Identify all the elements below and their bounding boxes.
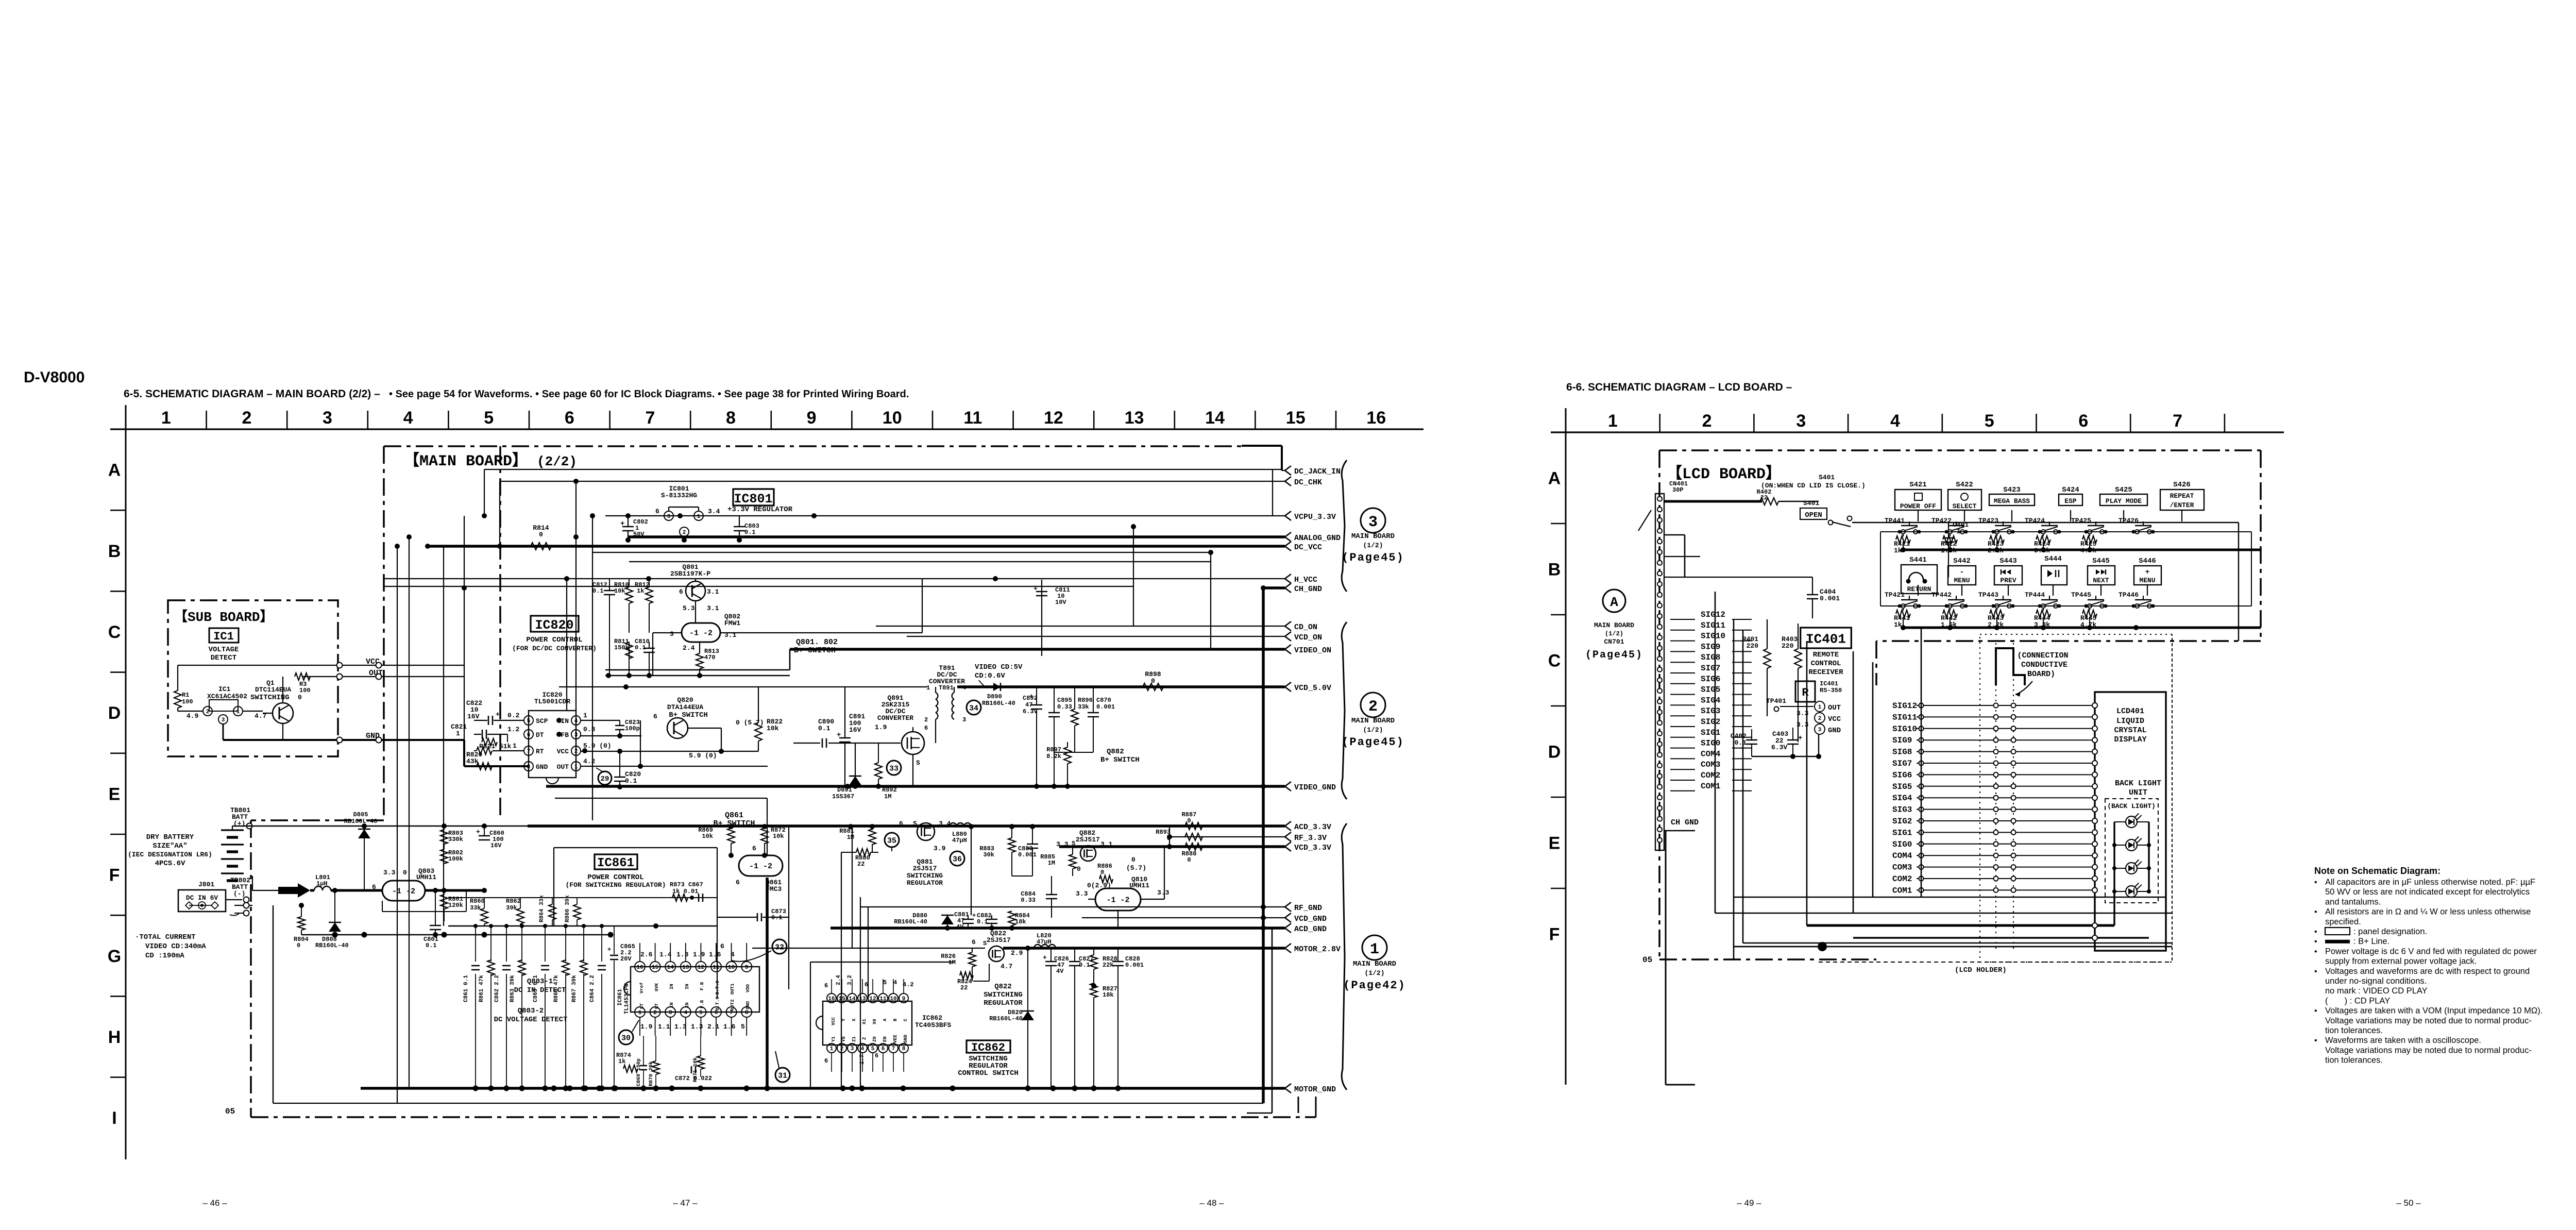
- svg-text:13: 13: [859, 996, 866, 1002]
- wire: [384, 578, 1285, 579]
- svg-text:0: 0: [297, 942, 300, 949]
- svg-text:+: +: [837, 731, 841, 739]
- svg-text:B+ SWITCH: B+ SWITCH: [1100, 756, 1140, 764]
- power control IC861 label box: [595, 854, 637, 869]
- svg-text:R862: R862: [506, 898, 521, 905]
- node ACD_3.3V: [1285, 821, 1291, 831]
- svg-text:Q822: Q822: [994, 983, 1012, 991]
- svg-text:CN701: CN701: [1604, 638, 1624, 646]
- svg-text:DTC114EUA: DTC114EUA: [255, 686, 291, 694]
- svg-text:(1/2): (1/2): [1364, 969, 1384, 977]
- svg-text:no mark : VIDEO CD PLAY: no mark : VIDEO CD PLAY: [2325, 986, 2428, 996]
- wire: [528, 824, 1285, 828]
- svg-text:6: 6: [372, 883, 376, 891]
- svg-text:7: 7: [892, 1046, 895, 1052]
- wire: [575, 481, 577, 711]
- svg-text:20V: 20V: [620, 955, 632, 963]
- svg-text:VIDEO_GND: VIDEO_GND: [1294, 783, 1336, 792]
- svg-text:S425: S425: [2115, 486, 2132, 494]
- svg-text:SIG1: SIG1: [1892, 828, 1912, 837]
- right page row border and letters: [1565, 432, 1567, 1085]
- svg-text:– 48 –: – 48 –: [1199, 1198, 1224, 1208]
- wire: [546, 785, 1285, 788]
- svg-text:(FOR SWITCHING REGULATOR): (FOR SWITCHING REGULATOR): [565, 881, 666, 889]
- svg-text:0: 0: [298, 694, 302, 701]
- svg-text:Q803-1: Q803-1: [527, 978, 553, 986]
- svg-text:DC VOLTAGE DETECT: DC VOLTAGE DETECT: [494, 1016, 568, 1024]
- svg-text:RB160L-40: RB160L-40: [344, 818, 378, 825]
- svg-text:MAIN BOARD: MAIN BOARD: [1351, 717, 1395, 725]
- svg-text:TP441: TP441: [1885, 517, 1905, 525]
- svg-text:220: 220: [1747, 642, 1759, 650]
- svg-text:COM3: COM3: [1892, 863, 1912, 872]
- wire: [443, 546, 444, 926]
- svg-text:•: •: [2314, 1007, 2317, 1016]
- svg-text:supply from external power vol: supply from external power voltage jack.: [2325, 957, 2477, 966]
- svg-text:Voltages are taken with a VOM: Voltages are taken with a VOM (Input imp…: [2325, 1006, 2543, 1016]
- svg-text:+: +: [476, 828, 480, 836]
- svg-text:SIG3: SIG3: [1701, 706, 1720, 716]
- circled A main board ref: [1603, 589, 1625, 612]
- svg-text:R866 39k: R866 39k: [565, 895, 571, 922]
- svg-text:10k: 10k: [767, 724, 779, 732]
- svg-text:2: 2: [1702, 411, 1712, 431]
- wire: [409, 537, 410, 1089]
- node H_VCC: [1285, 574, 1291, 583]
- svg-text:05: 05: [1642, 955, 1652, 965]
- wire cn401 row feeds: [1664, 577, 1812, 578]
- svg-text:OUT1: OUT1: [730, 983, 735, 995]
- svg-text:IC820: IC820: [535, 618, 573, 633]
- svg-text:12: 12: [869, 996, 876, 1002]
- svg-text:LIQUID: LIQUID: [2116, 717, 2144, 726]
- svg-text:10: 10: [890, 996, 896, 1002]
- svg-text:0.1: 0.1: [625, 777, 637, 785]
- svg-text:Note on Schematic Diagram:: Note on Schematic Diagram:: [2314, 866, 2441, 876]
- svg-text:OUT: OUT: [557, 763, 569, 771]
- svg-text:0.001: 0.001: [1125, 962, 1144, 969]
- svg-text:2: 2: [574, 749, 578, 755]
- board area dash separator: [499, 446, 501, 820]
- svg-text:D-V8000: D-V8000: [24, 369, 84, 386]
- svg-text:VCD_3.3V: VCD_3.3V: [1294, 844, 1331, 852]
- svg-text:MOTOR_GND: MOTOR_GND: [1294, 1085, 1336, 1094]
- svg-text:(-): (-): [233, 890, 245, 898]
- svg-text:1.4: 1.4: [659, 951, 672, 958]
- svg-text:GND: GND: [745, 1001, 751, 1009]
- svg-text:(IEC DESIGNATION LR6): (IEC DESIGNATION LR6): [128, 851, 212, 858]
- svg-text:DTA144EUA: DTA144EUA: [667, 703, 703, 711]
- svg-text:POWER CONTROL: POWER CONTROL: [526, 636, 582, 644]
- svg-text:DC IN 6V: DC IN 6V: [186, 894, 218, 902]
- svg-text:4: 4: [1890, 411, 1900, 431]
- svg-text:3.3: 3.3: [1076, 890, 1088, 898]
- wire: [1170, 836, 1285, 837]
- mosfet q891 wires: [912, 727, 913, 732]
- page reference 3 bracket: [1342, 460, 1347, 592]
- node VCD_5.0V: [1285, 682, 1291, 692]
- svg-text:COM1: COM1: [1892, 886, 1912, 895]
- wire rows left feed: [1880, 532, 1881, 606]
- svg-text:SIG1: SIG1: [1701, 728, 1720, 737]
- svg-text:TP426: TP426: [2119, 517, 2139, 525]
- svg-text:2: 2: [1818, 716, 1822, 722]
- svg-text:IC1: IC1: [218, 685, 231, 693]
- svg-text:S401: S401: [1803, 499, 1819, 507]
- svg-text:DISPLAY: DISPLAY: [2114, 735, 2146, 744]
- svg-text:6: 6: [752, 845, 756, 852]
- svg-text:13: 13: [682, 965, 689, 971]
- svg-text:3: 3: [667, 514, 671, 520]
- svg-text:F: F: [1549, 925, 1560, 945]
- svg-text:5: 5: [484, 408, 494, 428]
- svg-text:4.7: 4.7: [1001, 963, 1012, 970]
- wire out line: [581, 766, 768, 767]
- svg-text:3: 3: [1368, 514, 1378, 531]
- svg-text:VCD_ON: VCD_ON: [1294, 633, 1322, 642]
- capacitor C803: [734, 526, 745, 528]
- svg-text:(1/2): (1/2): [1605, 630, 1623, 637]
- svg-text:0: 0: [1187, 817, 1191, 824]
- svg-text:DC_CHK: DC_CHK: [1294, 478, 1322, 487]
- ir receiver pins: [1815, 701, 1825, 712]
- svg-text:7: 7: [2173, 411, 2182, 431]
- svg-text:18k: 18k: [1103, 991, 1114, 999]
- wire q861 feed rail: [555, 798, 767, 799]
- svg-text:S422: S422: [1956, 481, 1973, 489]
- svg-text:330k: 330k: [448, 836, 463, 843]
- svg-text:SIG11: SIG11: [1892, 713, 1917, 722]
- svg-text:6: 6: [924, 724, 928, 732]
- wire battery plus rail: [232, 825, 576, 827]
- svg-text:Voltage variations may be note: Voltage variations may be noted due to n…: [2325, 1046, 2532, 1055]
- display LCD401 box: [2095, 692, 2166, 951]
- svg-text:(Page45): (Page45): [1342, 551, 1404, 564]
- svg-text:1: 1: [697, 514, 701, 520]
- svg-text:S401: S401: [1819, 474, 1835, 481]
- svg-text:VCC: VCC: [557, 748, 569, 755]
- page reference circled 1: [1362, 935, 1387, 960]
- svg-text:B: B: [1548, 560, 1561, 580]
- svg-text:SIG10: SIG10: [1892, 724, 1917, 734]
- svg-text:2: 2: [242, 408, 251, 428]
- svg-text:1.9: 1.9: [875, 723, 887, 731]
- svg-text:2.4: 2.4: [836, 975, 842, 985]
- svg-text:: panel designation.: : panel designation.: [2353, 927, 2427, 936]
- svg-text:X: X: [852, 1018, 857, 1021]
- svg-text:33k: 33k: [1078, 703, 1089, 711]
- wire ic861 bottom rail dots: [551, 1086, 557, 1091]
- svg-text:+: +: [620, 520, 624, 528]
- svg-text:IN: IN: [685, 1002, 690, 1008]
- q803 loop box: [382, 908, 466, 921]
- svg-text:S: S: [916, 759, 920, 767]
- wire top cn401 feed: [1664, 500, 1762, 503]
- svg-text:CONVERTER: CONVERTER: [877, 714, 913, 722]
- svg-text:+: +: [972, 912, 976, 919]
- svg-text:CONDUCTIVE: CONDUCTIVE: [2021, 661, 2067, 669]
- svg-text:MOTOR_2.8V: MOTOR_2.8V: [1294, 945, 1341, 954]
- svg-text:VCD_5.0V: VCD_5.0V: [1294, 684, 1331, 693]
- svg-text:R873 C867: R873 C867: [670, 881, 703, 888]
- svg-text:4: 4: [861, 1046, 865, 1052]
- svg-text:CONTROL: CONTROL: [1811, 660, 1841, 668]
- svg-text:+3.3V REGULATOR: +3.3V REGULATOR: [727, 506, 793, 514]
- node CD_ON: [1285, 621, 1291, 631]
- svg-text:10k: 10k: [773, 833, 784, 840]
- svg-text:TL1453CPW: TL1453CPW: [624, 983, 630, 1014]
- svg-text:6: 6: [972, 938, 976, 946]
- wire: [1263, 586, 1285, 589]
- svg-text:C895: C895: [1057, 697, 1072, 704]
- node VIDEO_ON: [1285, 645, 1291, 654]
- svg-text:0.1: 0.1: [592, 587, 604, 595]
- svg-text:D: D: [108, 703, 121, 723]
- ic862 boxed label: [967, 1040, 1010, 1053]
- svg-text:11: 11: [963, 408, 982, 428]
- svg-text:E: E: [109, 784, 121, 804]
- wire jack down: [273, 905, 274, 1103]
- wire: [273, 1103, 1263, 1104]
- svg-text:16: 16: [1366, 408, 1386, 428]
- svg-text:SIG10: SIG10: [1701, 632, 1725, 641]
- node ACD_GND: [1285, 923, 1291, 933]
- svg-text:2SJ517: 2SJ517: [1076, 836, 1100, 844]
- svg-text:5: 5: [527, 718, 531, 724]
- svg-text:MENU: MENU: [2139, 577, 2155, 584]
- svg-text:1: 1: [638, 1010, 642, 1016]
- svg-text:C: C: [903, 1018, 908, 1021]
- wire: [860, 906, 1285, 907]
- svg-text:UMH11: UMH11: [416, 873, 436, 881]
- svg-text:SIG7: SIG7: [1892, 759, 1912, 768]
- svg-text:(1/2): (1/2): [1363, 726, 1383, 734]
- svg-text:2.9: 2.9: [1011, 949, 1023, 957]
- svg-text:6: 6: [865, 981, 868, 988]
- svg-text:specified.: specified.: [2325, 917, 2361, 926]
- svg-text:•: •: [2314, 908, 2317, 917]
- svg-text:S: S: [913, 820, 917, 828]
- wire ic862 bottom dots: [840, 1086, 846, 1091]
- jack connection: [226, 899, 242, 900]
- svg-text:【MAIN BOARD】: 【MAIN BOARD】: [404, 452, 528, 470]
- svg-text:220: 220: [1782, 642, 1794, 650]
- svg-text:A: A: [1548, 469, 1561, 488]
- svg-text:2.1: 2.1: [707, 1023, 720, 1031]
- svg-text:EN: EN: [883, 1036, 888, 1042]
- svg-text:Q803-2: Q803-2: [518, 1007, 544, 1015]
- svg-text:1M: 1M: [847, 834, 854, 841]
- svg-text:•: •: [2314, 967, 2317, 976]
- svg-text:RF_3.3V: RF_3.3V: [1294, 834, 1327, 843]
- wire: [629, 561, 1211, 562]
- svg-text:14: 14: [1205, 408, 1225, 428]
- right page column ruler: [1551, 431, 2284, 433]
- wire: [752, 948, 985, 949]
- svg-text:Q801. 802: Q801. 802: [796, 638, 838, 647]
- wire backlight feeds: [1807, 924, 2114, 927]
- svg-text:TP446: TP446: [2119, 591, 2139, 599]
- node VCPU_3.3V: [1285, 511, 1291, 520]
- svg-text:H_VCC: H_VCC: [1294, 576, 1317, 584]
- svg-text:SIG6: SIG6: [1701, 675, 1720, 684]
- svg-text:CT: CT: [639, 1003, 645, 1009]
- svg-text:(BACK LIGHT): (BACK LIGHT): [2107, 802, 2156, 810]
- svg-text:VCC: VCC: [1828, 715, 1841, 723]
- svg-text:50V: 50V: [633, 531, 645, 538]
- svg-text:E: E: [1549, 834, 1561, 853]
- svg-text:SWITCHING: SWITCHING: [907, 872, 943, 880]
- wire vcc line: [581, 751, 758, 752]
- svg-text:ESP: ESP: [2064, 497, 2077, 505]
- diode D890: [993, 683, 1001, 691]
- svg-text:29: 29: [601, 775, 609, 783]
- svg-text:D890: D890: [987, 693, 1002, 700]
- svg-text:VIDEO CD:340mA: VIDEO CD:340mA: [145, 942, 206, 951]
- svg-text:15: 15: [652, 965, 659, 971]
- svg-text:TP423: TP423: [1978, 517, 1998, 525]
- wire junctions: [406, 534, 412, 540]
- svg-text:3: 3: [1796, 411, 1806, 431]
- svg-text:0.1: 0.1: [426, 942, 437, 949]
- power control IC820 label box: [531, 616, 579, 632]
- svg-text:S423: S423: [2003, 486, 2021, 494]
- svg-text:R897: R897: [1046, 746, 1061, 753]
- svg-text:3: 3: [851, 1046, 854, 1052]
- svg-text:8.2k: 8.2k: [1046, 753, 1061, 760]
- wire q801 connections: [695, 579, 696, 581]
- svg-text:·TOTAL CURRENT: ·TOTAL CURRENT: [135, 933, 196, 941]
- wire: [605, 669, 790, 671]
- svg-text:(Page45): (Page45): [1342, 736, 1404, 749]
- wire connector slash: [1638, 510, 1651, 531]
- svg-text:3: 3: [669, 1010, 672, 1016]
- main board dash-dot outline: [384, 445, 1242, 447]
- svg-text:S: S: [1072, 840, 1075, 847]
- circled 30: [619, 1030, 633, 1044]
- svg-text:1M: 1M: [884, 793, 891, 800]
- svg-text:VCC: VCC: [831, 1017, 836, 1025]
- svg-text:5.3: 5.3: [683, 604, 695, 612]
- page reference circled 2: [1361, 693, 1385, 717]
- svg-text:4: 4: [731, 951, 735, 958]
- voltage detect IC1 label box: [209, 628, 239, 643]
- wire cn401 bottom tail: [1665, 831, 1667, 1085]
- svg-text:SIG0: SIG0: [1701, 739, 1720, 748]
- wire switch row1 chain: [1880, 531, 2251, 532]
- sub board dashed outline: [168, 600, 338, 756]
- wire: [592, 552, 1211, 553]
- svg-text:DT: DT: [536, 731, 544, 739]
- svg-text:RECEIVER: RECEIVER: [1808, 668, 1843, 677]
- svg-text:S424: S424: [2062, 486, 2079, 494]
- svg-text:DRY BATTERY: DRY BATTERY: [146, 833, 194, 841]
- svg-text:3: 3: [323, 408, 332, 428]
- svg-text:– 47 –: – 47 –: [673, 1198, 698, 1208]
- svg-text:(LCD HOLDER): (LCD HOLDER): [1955, 966, 2007, 974]
- svg-text:DETECT: DETECT: [211, 654, 236, 662]
- svg-text:36: 36: [953, 855, 962, 864]
- feed arrow: [278, 883, 310, 898]
- wire: [868, 907, 869, 998]
- svg-text:OUT: OUT: [1828, 704, 1841, 712]
- svg-text:R864 33k: R864 33k: [539, 895, 545, 922]
- svg-text:15: 15: [1286, 408, 1306, 428]
- wire fan1 verticals: [1733, 619, 1735, 959]
- page reference 2 bracket: [1342, 622, 1347, 799]
- wire: [1210, 552, 1211, 649]
- svg-text:2: 2: [653, 1010, 657, 1016]
- svg-text:-1 -2: -1 -2: [1106, 896, 1129, 905]
- svg-text:ACD_GND: ACD_GND: [1294, 925, 1327, 934]
- svg-text:-1 -2: -1 -2: [392, 887, 415, 896]
- svg-text:(ON:WHEN CD LID IS CLOSE.): (ON:WHEN CD LID IS CLOSE.): [1761, 482, 1866, 490]
- svg-text:6: 6: [679, 588, 683, 596]
- svg-text:A: A: [108, 461, 121, 480]
- svg-text:SIG5: SIG5: [1701, 685, 1720, 695]
- svg-text:100p: 100p: [625, 725, 640, 732]
- svg-text:R867 39k: R867 39k: [571, 975, 578, 1002]
- svg-text:5: 5: [741, 1023, 745, 1031]
- svg-text:POWER OFF: POWER OFF: [1900, 502, 1936, 510]
- svg-text:50 WV or less are not indicate: 50 WV or less are not indicated except f…: [2325, 887, 2530, 897]
- svg-text:D: D: [1548, 743, 1561, 762]
- wire: [428, 545, 1285, 548]
- svg-text:0.001: 0.001: [1096, 703, 1115, 711]
- svg-text:0: 0: [1131, 856, 1136, 864]
- svg-text:3.3: 3.3: [1797, 721, 1809, 729]
- svg-text:SIG5: SIG5: [1892, 782, 1912, 791]
- svg-text:2.6: 2.6: [640, 951, 653, 958]
- wire: [1003, 947, 1285, 950]
- svg-text:LCD401: LCD401: [2116, 707, 2144, 716]
- svg-text:2: 2: [840, 1046, 844, 1052]
- wire rf gnd row: [941, 915, 954, 916]
- svg-text:COM4: COM4: [1701, 749, 1721, 759]
- svg-text:1.9: 1.9: [693, 951, 705, 958]
- node DC_VCC: [1285, 542, 1291, 551]
- svg-text:SWITCHING: SWITCHING: [250, 694, 290, 702]
- svg-text:C862 2.2: C862 2.2: [494, 975, 500, 1002]
- backlight leds: [2113, 822, 2115, 891]
- svg-text:30k: 30k: [983, 851, 994, 858]
- svg-text:1.3: 1.3: [691, 1023, 703, 1031]
- svg-text:VOLTAGE: VOLTAGE: [209, 646, 239, 654]
- svg-text:SCP: SCP: [536, 717, 548, 725]
- wire rail joins: [1169, 826, 1170, 847]
- svg-text:S-81332HG: S-81332HG: [661, 492, 697, 499]
- left page row border and letters: [125, 429, 127, 1159]
- controller IC861 TL1453CPW body: [631, 967, 759, 1012]
- node DC_CHK: [1285, 477, 1291, 486]
- page reference 1 bracket: [1342, 823, 1347, 1090]
- wire: [559, 686, 927, 687]
- svg-text:+: +: [607, 946, 611, 953]
- svg-text:under no-signal conditions.: under no-signal conditions.: [2325, 976, 2427, 986]
- svg-text:Y: Y: [841, 1018, 846, 1021]
- svg-text:6: 6: [720, 942, 724, 950]
- svg-text:4.9: 4.9: [187, 712, 199, 720]
- svg-text:3.3: 3.3: [1797, 710, 1809, 717]
- wire q881 drain: [971, 827, 972, 915]
- svg-text:DC IN DETECT: DC IN DETECT: [514, 986, 566, 995]
- svg-text:11: 11: [879, 996, 887, 1002]
- svg-text:5: 5: [1985, 411, 1994, 431]
- svg-text:3: 3: [222, 717, 225, 723]
- svg-text:4: 4: [962, 684, 966, 692]
- circled 29: [598, 771, 612, 785]
- svg-text:(1/2): (1/2): [1363, 542, 1383, 549]
